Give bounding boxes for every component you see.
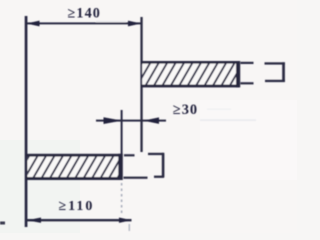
svg-text:≥110: ≥110: [59, 199, 95, 214]
arrow left of dim 110: [27, 218, 41, 223]
dimension line 140: [26, 22, 141, 24]
bottom dimension line 110: [26, 219, 132, 221]
corner speck bottom-left: [0, 222, 5, 225]
dimension line 30: [96, 120, 166, 122]
lower bar (hatched): [28, 155, 120, 178]
upper bar continuation bracket: [265, 62, 285, 64]
lower bar continuation bracket: [148, 153, 164, 155]
arrow left of dim 140: [27, 21, 40, 27]
extension vertical line (left edge of upper bar, long): [140, 17, 142, 152]
arrow pointing left at x=142.6: [144, 117, 160, 124]
arrow right of dim 110: [119, 218, 132, 223]
lower bar break dashes: [124, 154, 135, 156]
svg-text:≥140: ≥140: [68, 5, 101, 21]
upper bar (hatched): [142, 62, 237, 85]
upper bar break dashes: [241, 62, 254, 64]
extension line at right edge of lower bar: [121, 110, 123, 155]
faint dotted extension to bottom dim: [121, 183, 123, 215]
svg-text:≥30: ≥30: [173, 102, 198, 118]
arrow pointing right at x=121.5: [104, 117, 122, 124]
arrow right of dim 140: [128, 21, 141, 27]
faint bleed-through smudges: [200, 119, 256, 121]
wall (left vertical line): [25, 16, 28, 227]
